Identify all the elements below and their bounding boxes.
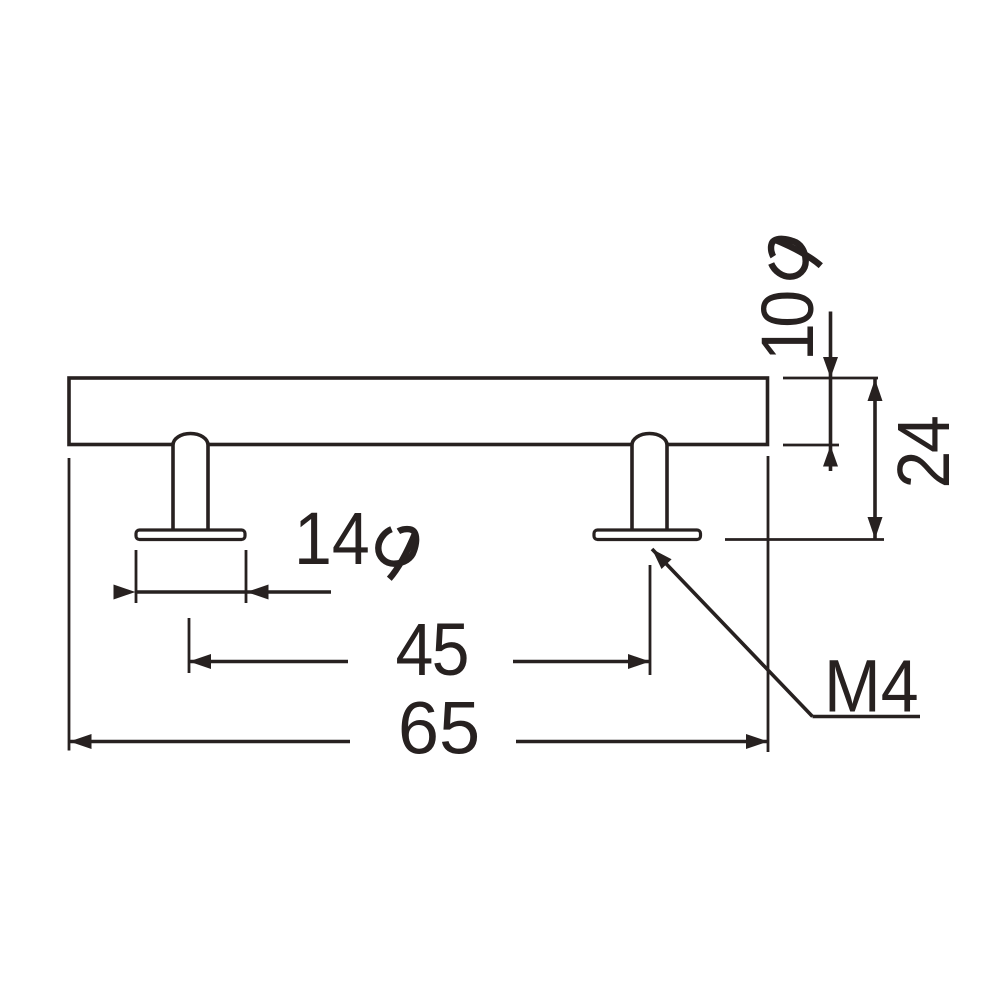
svg-text:10: 10 [747,290,829,361]
extension line: bar left edge down [68,458,71,751]
extension tick: left post center [188,618,191,673]
right post with dome top [632,434,667,531]
extension tick: left flange right [245,550,248,603]
leader line M4 diagonal [652,549,813,717]
dimension line 45 right segment [513,660,650,664]
left flange [136,530,245,540]
svg-text:65: 65 [398,687,480,770]
handle bar outline [69,378,768,445]
dimension line 10phi vertical [829,312,833,472]
label phi of 14 [378,529,416,579]
extension line: bar right edge down [767,456,770,752]
extension line: bar top right [783,377,878,380]
extension line: right post center [649,565,652,675]
svg-text:24: 24 [883,415,965,488]
arrowhead 14phi left (points right, outside) [114,585,136,600]
arrowhead 65 left [70,734,92,749]
dimension line 24 vertical [873,379,877,539]
svg-text:14: 14 [294,498,370,580]
dimension line 65 left segment [70,740,351,744]
leader line M4 underline [813,715,921,719]
label phi of 10 (rotated) [771,239,821,277]
left post with dome top [173,434,208,531]
extension line: bar bottom right [783,444,839,447]
arrowhead M4 leader (points up-left) [652,549,672,569]
arrowhead 10phi top (points down) [823,357,838,378]
dimension line 65 right segment [516,740,768,744]
arrowhead 24 bottom (points down) [868,517,883,539]
svg-text:M4: M4 [824,646,919,728]
arrowhead 65 right [746,734,768,749]
svg-text:45: 45 [396,609,470,691]
arrowhead 45 right [628,654,650,669]
dimension line 14phi [136,590,331,594]
arrowhead 14phi right (points left, outside) [247,585,269,600]
arrowhead 24 top (points up) [868,379,883,401]
extension tick: left flange left [135,550,138,603]
arrowhead 10phi bottom (points up) [823,446,838,467]
right flange [594,530,701,540]
arrowhead 45 left [189,654,211,669]
dimension line 45 left segment [189,660,348,664]
extension line: foot bottom right [725,538,884,541]
